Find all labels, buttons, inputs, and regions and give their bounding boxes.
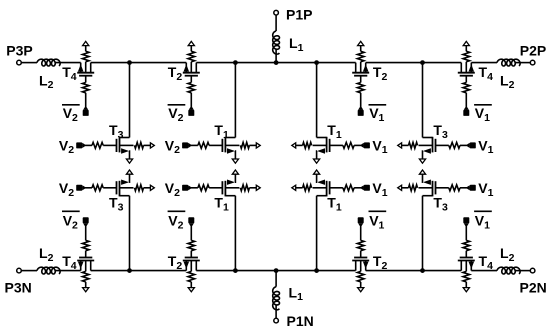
svg-text:P3P: P3P [6,43,32,59]
svg-text:T4: T4 [62,64,77,83]
svg-text:T1: T1 [214,122,229,141]
svg-text:V2: V2 [63,213,78,232]
svg-text:T3: T3 [109,195,124,214]
svg-text:V2: V2 [165,137,180,156]
svg-text:T2: T2 [373,253,388,272]
svg-text:V2: V2 [165,180,180,199]
svg-text:T4: T4 [479,253,494,272]
svg-text:V2: V2 [59,180,74,199]
svg-text:V2: V2 [63,105,78,124]
svg-text:T3: T3 [433,122,448,141]
svg-text:V1: V1 [369,105,384,124]
svg-text:L2: L2 [500,72,515,91]
svg-text:V2: V2 [59,137,74,156]
svg-text:V1: V1 [478,180,493,199]
svg-text:L1: L1 [289,284,304,303]
svg-text:T2: T2 [373,64,388,83]
svg-text:T2: T2 [168,64,183,83]
svg-text:T3: T3 [109,122,124,141]
svg-text:V2: V2 [168,105,183,124]
svg-text:L2: L2 [39,245,54,264]
svg-text:P3N: P3N [5,280,32,296]
svg-text:V1: V1 [475,105,490,124]
svg-text:T1: T1 [327,195,342,214]
svg-text:T1: T1 [327,122,342,141]
svg-text:P2N: P2N [520,280,547,296]
svg-text:V1: V1 [372,137,387,156]
svg-text:V2: V2 [168,213,183,232]
svg-text:T2: T2 [168,253,183,272]
svg-text:L2: L2 [39,72,54,91]
svg-text:T3: T3 [433,195,448,214]
svg-text:T4: T4 [62,253,77,272]
svg-text:P2P: P2P [520,43,546,59]
svg-text:L1: L1 [289,35,304,54]
svg-text:V1: V1 [372,180,387,199]
svg-text:T4: T4 [479,64,494,83]
svg-text:L2: L2 [500,245,515,264]
svg-text:V1: V1 [478,137,493,156]
svg-text:V1: V1 [369,213,384,232]
svg-text:P1P: P1P [286,7,312,23]
svg-text:P1N: P1N [287,313,314,329]
svg-text:V1: V1 [475,213,490,232]
svg-text:T1: T1 [214,195,229,214]
